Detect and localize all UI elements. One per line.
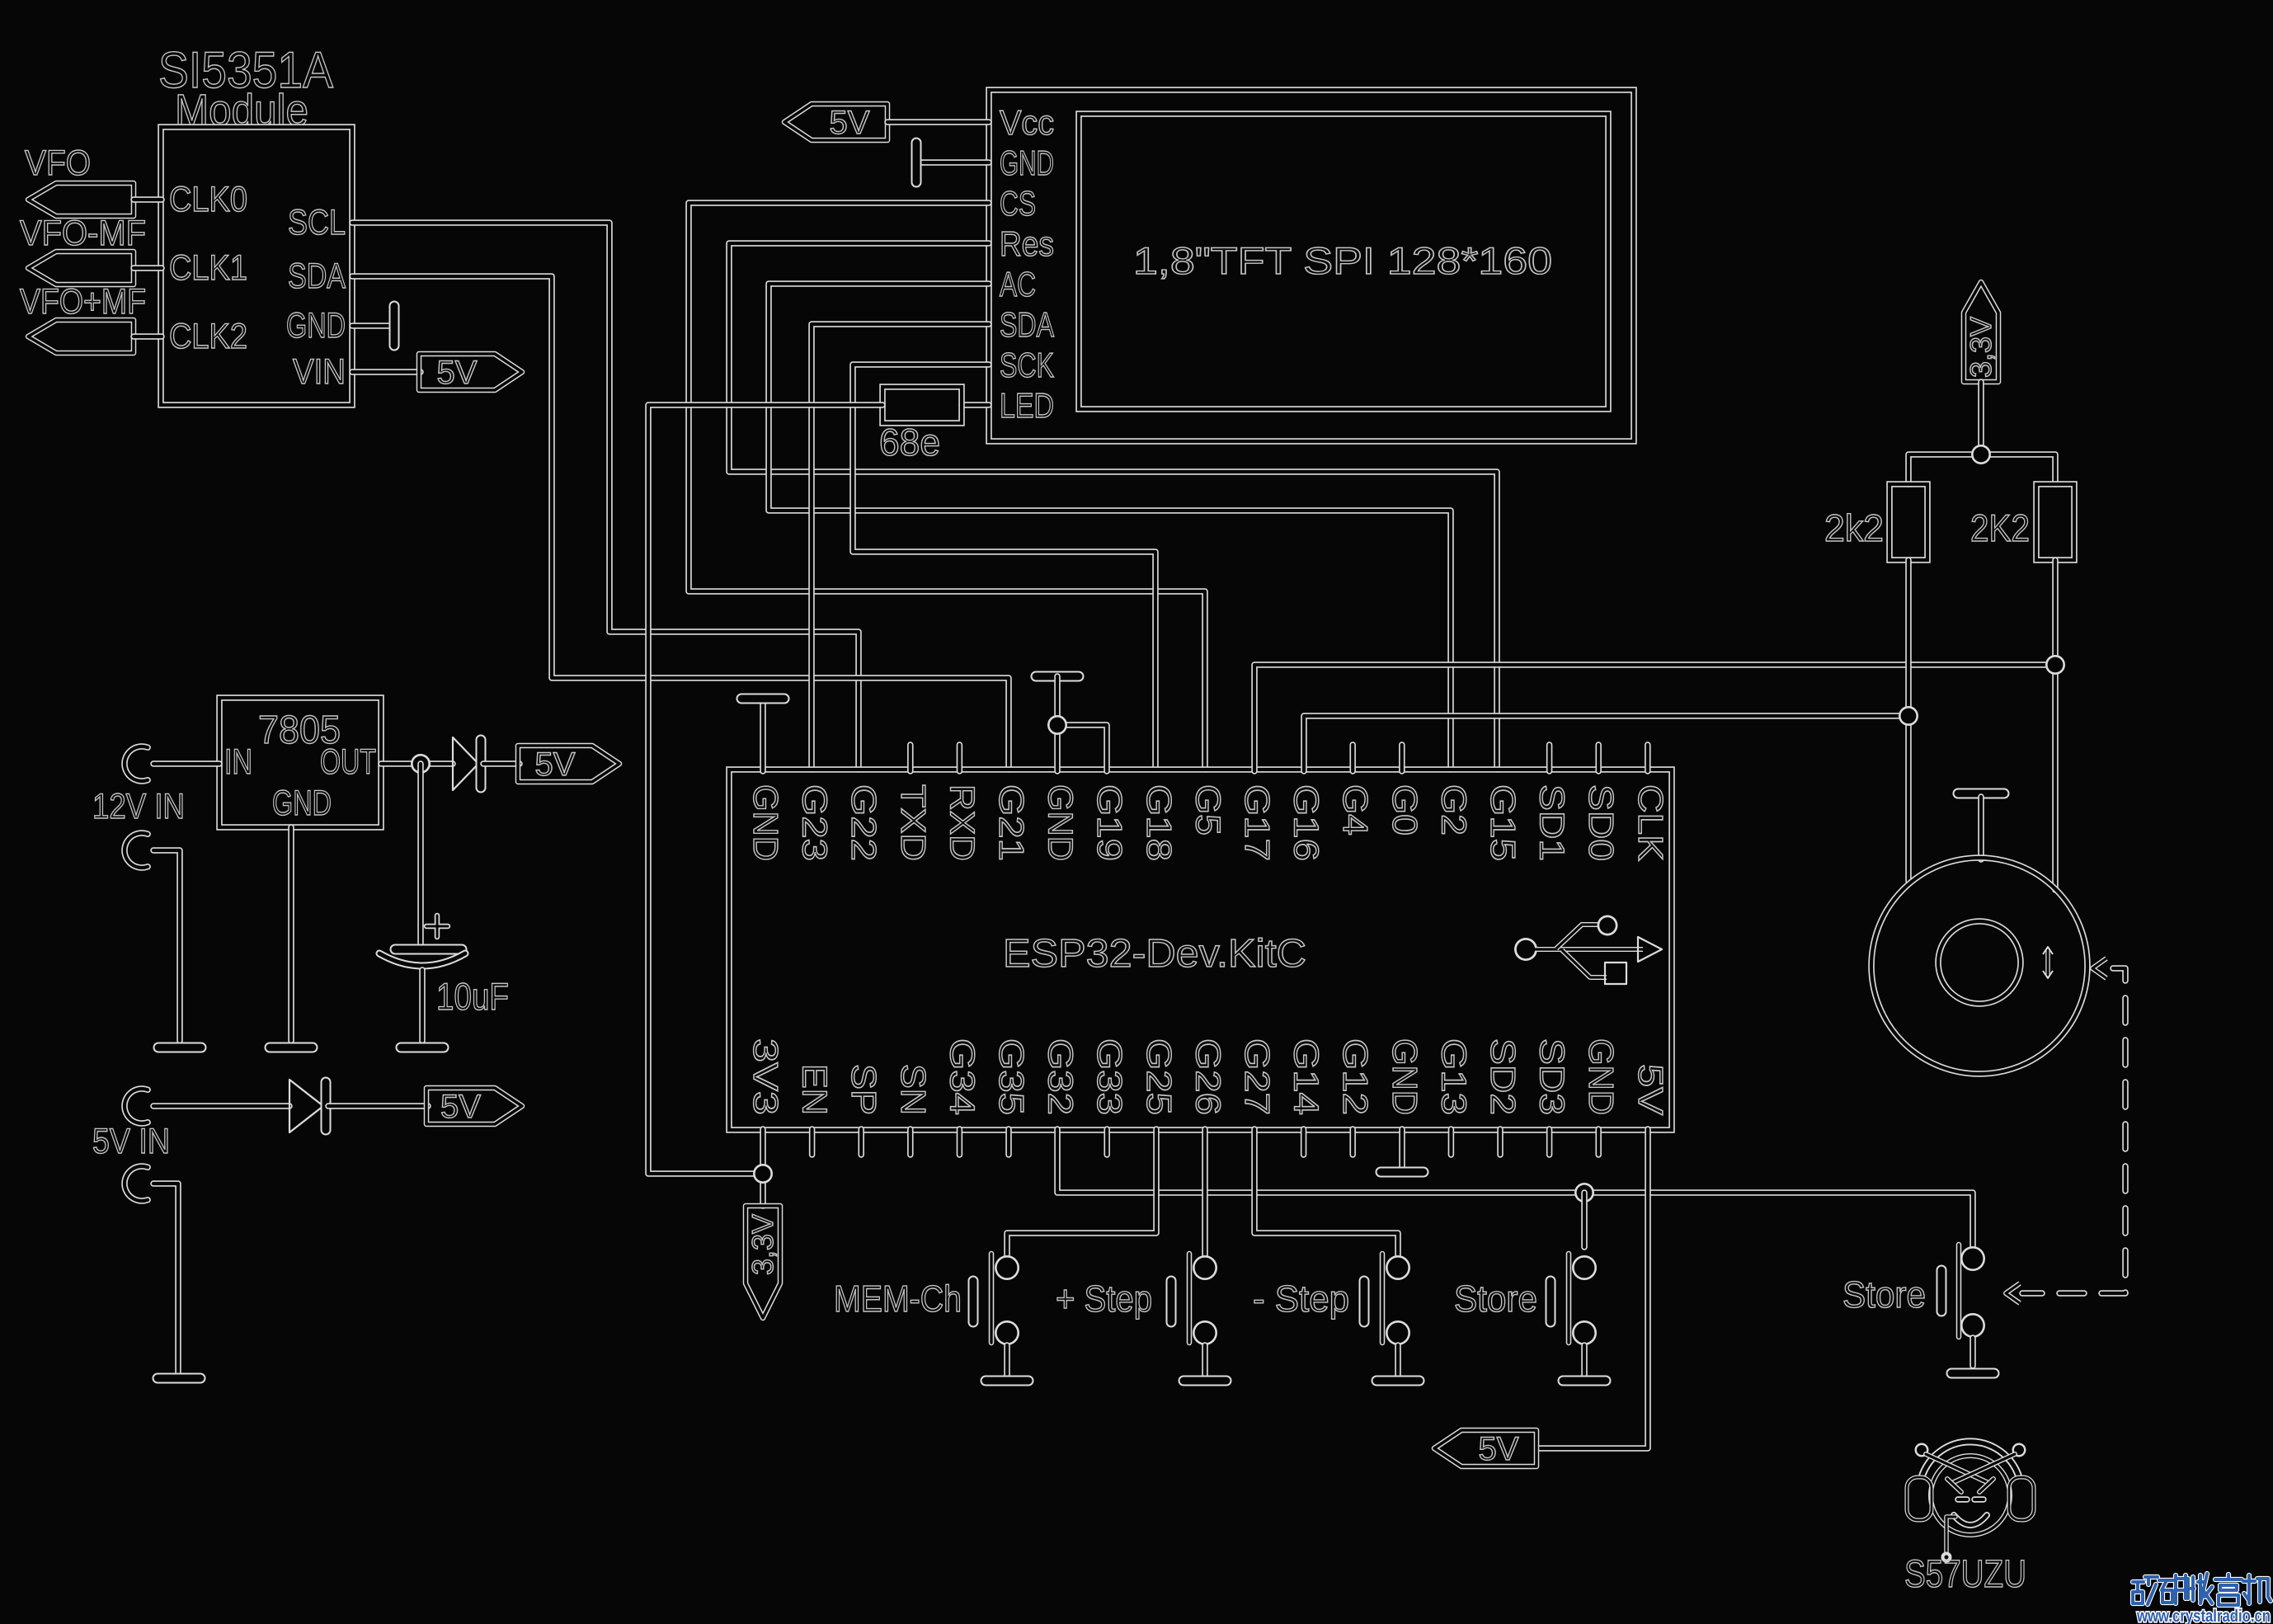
pin stub top RXD — [957, 745, 963, 771]
ground bar Store S5 — [1951, 1368, 1994, 1379]
button -Step S3 ground stem — [1395, 1345, 1401, 1376]
power flag 5V TFT — [784, 104, 887, 140]
logo eye right — [1974, 1496, 1984, 1503]
button Store S5 ground stem — [1969, 1338, 1976, 1366]
junction node encoder B — [2045, 655, 2065, 675]
module TFT screen inner box — [1079, 114, 1608, 409]
wire D2 to 5V flag — [328, 1103, 428, 1109]
svg-text:G0: G0 — [1386, 784, 1424, 836]
svg-text:G12: G12 — [1336, 1038, 1375, 1115]
button +Step S2 bottom contact — [1193, 1320, 1217, 1345]
pin label top TXD 3 — [894, 784, 933, 861]
svg-text:VFO+MF: VFO+MF — [20, 282, 146, 322]
label 12V IN — [92, 787, 185, 826]
pin label SCL — [288, 203, 346, 242]
pin stub bottom G12 — [1349, 1129, 1356, 1155]
logo S57UZU headband — [1922, 1442, 2018, 1475]
resistor R2 2k2 — [1889, 484, 1927, 560]
wire 12V IN — [153, 760, 219, 767]
svg-text:5V: 5V — [535, 746, 576, 783]
label - Step — [1253, 1278, 1349, 1320]
svg-text:VFO-MF: VFO-MF — [20, 214, 146, 253]
logo antenna right — [1954, 1454, 2015, 1482]
pin label bottom G12 12 — [1336, 1038, 1375, 1115]
ground bar U1 — [389, 306, 400, 346]
label 7805 — [258, 708, 341, 752]
pin stub top G4 — [1349, 745, 1356, 771]
ground bar 12V — [158, 1043, 201, 1053]
logo eye left — [1958, 1496, 1967, 1503]
connector 12V IN pin — [125, 746, 148, 781]
pin label TFT GND — [1000, 144, 1054, 182]
svg-text:SDA: SDA — [288, 257, 346, 296]
power flag 5V TFT text — [830, 105, 870, 141]
wire 12V GND — [153, 850, 180, 1041]
pin label top G4 12 — [1336, 784, 1375, 836]
pin label bottom SD3 16 — [1533, 1038, 1572, 1115]
wire G26 to +Step — [1202, 1129, 1208, 1255]
svg-text:GND: GND — [1386, 1038, 1424, 1115]
wire store button drop — [1581, 1193, 1588, 1247]
pin label top CLK 18 — [1631, 784, 1670, 861]
pin label top G21 5 — [992, 784, 1031, 861]
svg-text:G17: G17 — [1238, 784, 1277, 861]
svg-text:G18: G18 — [1140, 784, 1179, 861]
power flag 5V VIN text — [437, 355, 478, 391]
label Store S5 — [1842, 1273, 1926, 1316]
svg-text:1,8"TFT SPI 128*160: 1,8"TFT SPI 128*160 — [1133, 239, 1552, 282]
svg-text:ESP32-Dev.KitC: ESP32-Dev.KitC — [1003, 932, 1306, 976]
button -Step S3 plunger bar — [1380, 1254, 1386, 1343]
pin label bottom SP 2 — [845, 1064, 883, 1115]
label ESP32 title — [1003, 932, 1306, 976]
label + Step — [1056, 1278, 1152, 1320]
svg-text:TXD: TXD — [894, 784, 933, 861]
encoder S5 inner circle — [1938, 921, 2021, 1004]
ground bar -Step S3 — [1377, 1376, 1419, 1386]
svg-text:G35: G35 — [992, 1038, 1031, 1115]
ground bar ESP32 bottom — [1381, 1167, 1424, 1178]
svg-text:Res: Res — [1000, 224, 1054, 263]
svg-text:3V3: 3V3 — [746, 1038, 785, 1115]
pin stub bottom G14 — [1301, 1129, 1307, 1155]
watermark site name — [2133, 1574, 2271, 1605]
svg-text:3,3V: 3,3V — [1964, 317, 1998, 378]
pin stub top CLK — [1645, 745, 1651, 771]
svg-text:G25: G25 — [1140, 1038, 1179, 1115]
svg-text:+ Step: + Step — [1056, 1278, 1152, 1320]
junction node store bus — [1574, 1183, 1594, 1203]
svg-text:VFO: VFO — [25, 144, 91, 183]
pin label TFT Vcc — [1000, 103, 1054, 142]
resistor R1 68e — [882, 387, 962, 423]
ground bar 7805 — [270, 1043, 313, 1053]
wire D1 to 5V flag — [483, 760, 520, 767]
ground bar ESP32 top-left — [741, 694, 784, 704]
USB icon big circle — [1514, 938, 1537, 961]
USB icon lower branch — [1562, 950, 1607, 977]
net flag VFO-MF — [28, 252, 134, 285]
IC U2 7805 box — [219, 698, 381, 827]
pin label top G19 7 — [1090, 784, 1129, 861]
pin label bottom G33 7 — [1090, 1038, 1129, 1115]
pin stub bottom SN — [907, 1129, 914, 1155]
diode D2 cathode bar — [321, 1082, 332, 1130]
svg-text:G13: G13 — [1434, 1038, 1473, 1115]
wire resistor top bus — [1908, 454, 2055, 484]
pin stub bottom SP — [858, 1129, 864, 1155]
pin stub top SD1 — [1546, 745, 1553, 771]
svg-text:GND: GND — [286, 306, 346, 346]
dashed link arrow to button — [2006, 1283, 2020, 1303]
logo antenna right foot — [1947, 1479, 1961, 1492]
pin stub bottom SD3 — [1546, 1129, 1553, 1155]
power flag 5V in — [426, 1088, 522, 1124]
pin stub top G0 — [1399, 745, 1405, 771]
encoder shaft arrow tips — [2043, 947, 2053, 978]
dashed link arrow to encoder — [2092, 958, 2106, 978]
wire G27 to -Step — [1254, 1129, 1398, 1255]
logo S57UZU right ear pad — [2009, 1477, 2034, 1520]
button MEM-Ch S1 actuator — [968, 1281, 979, 1322]
IC U1 SI5351A module box — [161, 127, 352, 405]
pin label bottom G13 14 — [1434, 1038, 1473, 1115]
pin label GND 7805 — [272, 784, 332, 823]
pin label SDA — [288, 257, 346, 296]
wire GND to G19 — [1057, 725, 1107, 771]
power flag 5V in text — [440, 1089, 481, 1125]
svg-text:Vcc: Vcc — [1000, 103, 1054, 142]
svg-text:CLK: CLK — [1631, 784, 1670, 861]
USB icon square — [1605, 963, 1626, 984]
pin stub bottom SD2 — [1497, 1129, 1504, 1155]
module ESP32 box — [729, 770, 1672, 1130]
connector 12V GND pin — [125, 833, 148, 868]
svg-text:68e: 68e — [879, 421, 940, 464]
pin label top G2 14 — [1434, 784, 1473, 836]
svg-text:GND: GND — [272, 784, 332, 823]
svg-text:VIN: VIN — [293, 352, 346, 392]
svg-text:SP: SP — [845, 1064, 883, 1115]
svg-text:www.crystalradio.cn: www.crystalradio.cn — [2136, 1607, 2271, 1624]
ground bar TFT — [911, 143, 922, 182]
wire CLK1 stub — [134, 265, 162, 271]
wire GND pin7 riser — [1054, 725, 1061, 771]
USB icon arrowhead — [1638, 937, 1662, 962]
button Store S4 bottom contact — [1572, 1320, 1597, 1345]
power flag 5V bottom — [1434, 1430, 1537, 1466]
pin label top G23 1 — [796, 784, 835, 861]
capacitor C1 plus sign — [426, 916, 448, 937]
wire 5V pin to flag — [1538, 1129, 1648, 1448]
button +Step S2 actuator — [1166, 1281, 1177, 1322]
svg-text:G5: G5 — [1188, 784, 1227, 836]
pin label TFT AC — [1000, 265, 1036, 304]
wire CLK0 stub — [134, 196, 162, 203]
svg-text:CLK1: CLK1 — [169, 248, 247, 288]
button Store S4 plunger bar — [1566, 1254, 1572, 1343]
logo antenna left — [1926, 1454, 1987, 1482]
ground bar MEM-Ch S1 — [986, 1376, 1028, 1386]
button -Step S3 actuator — [1359, 1281, 1370, 1322]
pin label TFT SDA — [1000, 305, 1054, 344]
logo mic dot — [1941, 1552, 1952, 1563]
pin label OUT — [320, 742, 376, 782]
svg-text:SN: SN — [894, 1064, 933, 1115]
svg-text:G34: G34 — [943, 1038, 981, 1115]
wire TFT SCK to G18 — [853, 365, 1155, 770]
wire 5V IN — [153, 1103, 289, 1109]
button MEM-Ch S1 plunger bar — [989, 1254, 995, 1343]
ground bar 5V IN — [158, 1373, 200, 1384]
svg-text:S57UZU: S57UZU — [1904, 1551, 2026, 1595]
wire R3 to encoder B — [2052, 560, 2059, 890]
svg-text:GND: GND — [1042, 784, 1080, 861]
svg-text:G14: G14 — [1287, 1038, 1326, 1115]
ground bar +Step S2 — [1184, 1376, 1226, 1386]
pin label top G18 8 — [1140, 784, 1179, 861]
svg-text:SD0: SD0 — [1582, 784, 1621, 861]
pin label TFT SCK — [1000, 346, 1054, 384]
label SI5351A title — [158, 42, 334, 99]
pin label bottom G26 9 — [1188, 1038, 1227, 1115]
encoder shaft arrow — [2045, 950, 2050, 975]
svg-text:LED: LED — [1000, 386, 1054, 425]
pin label bottom 5V 18 — [1631, 1064, 1670, 1115]
button MEM-Ch S1 ground stem — [1004, 1345, 1010, 1376]
svg-text:GND: GND — [1582, 1038, 1621, 1115]
diode D2 triangle — [289, 1080, 323, 1132]
svg-text:5V: 5V — [437, 355, 478, 391]
pin label bottom G14 11 — [1287, 1038, 1326, 1115]
button Store S4 top contact — [1572, 1255, 1597, 1280]
button +Step S2 ground stem — [1202, 1345, 1208, 1376]
wire 3V3 down — [760, 1129, 766, 1206]
pin label bottom GND 17 — [1582, 1038, 1621, 1115]
pin label bottom G32 6 — [1042, 1038, 1080, 1115]
USB icon small circle — [1598, 916, 1618, 936]
pin label top SD1 16 — [1533, 784, 1572, 861]
button Store S5 bottom contact — [1960, 1313, 1985, 1338]
label 10uF — [436, 975, 509, 1018]
net label VFO-MF text — [20, 214, 146, 253]
svg-text:G22: G22 — [845, 784, 883, 861]
power flag 5V VIN — [419, 354, 522, 390]
resistor R3 2K2 — [2036, 484, 2074, 560]
logo mic boom — [1946, 1517, 1955, 1554]
wire top GND pin1 — [760, 704, 766, 771]
pin label top G22 2 — [845, 784, 883, 861]
svg-text:CS: CS — [1000, 184, 1036, 223]
pin label bottom G25 8 — [1140, 1038, 1179, 1115]
wire 7805 OUT — [381, 760, 453, 767]
power flag 3,3V top — [1964, 282, 1998, 382]
svg-text:G23: G23 — [796, 784, 835, 861]
svg-text:GND: GND — [746, 784, 785, 861]
wire 5V GND — [153, 1184, 178, 1373]
svg-text:G26: G26 — [1188, 1038, 1227, 1115]
svg-text:SD3: SD3 — [1533, 1038, 1572, 1115]
wire TFT AC to G2 — [769, 284, 1451, 770]
wire 7805 GND — [288, 827, 294, 1041]
label TFT title — [1133, 239, 1552, 282]
pin stub bottom G33 — [1104, 1129, 1110, 1155]
USB icon upper branch — [1556, 925, 1599, 949]
wire TFT SDA to G23 — [812, 324, 989, 770]
dashed link wire — [2022, 968, 2125, 1293]
svg-text:G4: G4 — [1336, 784, 1375, 836]
svg-text:EN: EN — [796, 1064, 835, 1115]
pin stub top TXD — [907, 745, 914, 771]
ground bar encoder — [1958, 788, 2004, 799]
pin label bottom GND 13 — [1386, 1038, 1424, 1115]
logo smile — [1954, 1515, 1987, 1525]
ground bar Store S4 — [1563, 1376, 1606, 1386]
svg-text:12V IN: 12V IN — [92, 787, 185, 826]
wire LED resistor to 3V3 node — [648, 405, 882, 1174]
pin label TFT CS — [1000, 184, 1036, 223]
wire TFT GND — [921, 159, 989, 166]
connector 5V IN pin — [125, 1089, 148, 1123]
pin stub bottom G34 — [957, 1129, 963, 1155]
wire VIN to 5V — [352, 369, 421, 375]
label 68e — [879, 421, 940, 464]
svg-text:Store: Store — [1842, 1273, 1926, 1316]
wire TFT Vcc — [887, 119, 989, 125]
svg-text:5V: 5V — [1479, 1431, 1519, 1467]
pin label bottom 3V3 0 — [746, 1038, 785, 1115]
pin label top G17 10 — [1238, 784, 1277, 861]
pin stub bottom GND — [1595, 1129, 1602, 1155]
encoder S5 outer circle — [1871, 858, 2087, 1074]
pin label top G15 15 — [1484, 784, 1522, 861]
watermark url — [2136, 1607, 2271, 1624]
button MEM-Ch S1 bottom contact — [995, 1320, 1019, 1345]
svg-text:G32: G32 — [1042, 1038, 1080, 1115]
svg-text:IN: IN — [224, 742, 252, 782]
button Store S4 actuator — [1546, 1281, 1556, 1322]
pin stub bottom G13 — [1448, 1129, 1455, 1155]
pin label CLK1 — [169, 248, 247, 288]
pin label top G5 9 — [1188, 784, 1227, 836]
svg-text:CLK0: CLK0 — [169, 180, 247, 219]
pin label GND U1 — [286, 306, 346, 346]
svg-text:G16: G16 — [1287, 784, 1326, 861]
connector 5V GND pin — [125, 1166, 148, 1201]
ground bar C1 — [401, 1043, 444, 1053]
label Module title — [175, 86, 308, 135]
svg-text:SCL: SCL — [288, 203, 346, 242]
label 2k2 — [1824, 506, 1884, 549]
label MEM-Ch — [834, 1278, 962, 1320]
button -Step S3 top contact — [1386, 1255, 1410, 1280]
power flag 3,3V bottom text — [746, 1214, 779, 1275]
pin label bottom G35 5 — [992, 1038, 1031, 1115]
logo S57UZU left ear pad — [1907, 1477, 1932, 1520]
svg-text:CLK2: CLK2 — [169, 317, 247, 356]
pin label top G16 11 — [1287, 784, 1326, 861]
pin label CLK2 — [169, 317, 247, 356]
svg-text:- Step: - Step — [1253, 1278, 1349, 1320]
pin label bottom EN 1 — [796, 1064, 835, 1115]
svg-text:OUT: OUT — [320, 742, 376, 782]
wire SDA to G21 — [352, 276, 1009, 770]
svg-text:3,3V: 3,3V — [746, 1214, 779, 1275]
pin label TFT Res — [1000, 224, 1054, 263]
svg-text:5V: 5V — [1631, 1064, 1670, 1115]
svg-text:2K2: 2K2 — [1970, 506, 2030, 549]
button Store S5 plunger bar — [1956, 1245, 1962, 1337]
svg-text:G2: G2 — [1434, 784, 1473, 836]
svg-text:G33: G33 — [1090, 1038, 1129, 1115]
wire 3,3V stem — [1978, 382, 1984, 454]
wire R2 to encoder A — [1905, 560, 1912, 881]
pin label top SD0 17 — [1582, 784, 1621, 861]
button MEM-Ch S1 top contact — [995, 1255, 1019, 1280]
pin label IN — [224, 742, 252, 782]
label Store S4 — [1454, 1278, 1537, 1320]
button +Step S2 plunger bar — [1187, 1254, 1193, 1343]
svg-text:G21: G21 — [992, 784, 1031, 861]
pin label bottom G27 10 — [1238, 1038, 1277, 1115]
pin stub bottom EN — [809, 1129, 816, 1155]
svg-text:GND: GND — [1000, 144, 1054, 182]
power flag 3,3V top text — [1964, 317, 1998, 378]
net label VFO+MF text — [20, 282, 146, 322]
pin label bottom SD2 15 — [1484, 1038, 1522, 1115]
pin stub top SD0 — [1595, 745, 1602, 771]
power flag 3,3V bottom — [746, 1206, 780, 1318]
USB icon shaft — [1535, 947, 1643, 952]
button Store S4 ground stem — [1581, 1345, 1588, 1376]
wire TFT CS to G5 — [689, 203, 1205, 770]
junction node 3V3 — [753, 1164, 773, 1184]
pin label TFT LED — [1000, 386, 1054, 425]
logo S57UZU face — [1931, 1456, 2010, 1535]
logo antenna left knob — [1915, 1443, 1929, 1457]
junction node encoder A — [1899, 706, 1918, 726]
svg-text:G27: G27 — [1238, 1038, 1277, 1115]
ground bar ESP32 top-mid — [1036, 671, 1079, 682]
wire G32 store bus — [1057, 1129, 1973, 1247]
power flag 5V out text — [535, 746, 576, 783]
net label VFO text — [25, 144, 91, 183]
diode D1 triangle — [453, 737, 478, 790]
wire U1 GND — [352, 322, 389, 329]
junction node 3,3V bus — [1971, 445, 1991, 464]
button Store S5 top contact — [1960, 1246, 1985, 1271]
label 5V IN — [92, 1122, 170, 1161]
wire cap to ground — [419, 970, 426, 1041]
power flag 5V bottom text — [1479, 1431, 1519, 1467]
button Store S5 actuator — [1937, 1270, 1947, 1311]
pin label top RXD 4 — [943, 784, 981, 861]
wire CLK2 stub — [134, 333, 162, 340]
logo antenna right knob — [2012, 1443, 2026, 1457]
wire TFT Res to G15 — [729, 243, 1497, 770]
svg-text:G15: G15 — [1484, 784, 1522, 861]
module TFT outer box — [989, 90, 1634, 441]
pin label top GND 6 — [1042, 784, 1080, 861]
pin label bottom SN 3 — [894, 1064, 933, 1115]
power flag 5V out — [518, 746, 619, 782]
button -Step S3 bottom contact — [1386, 1320, 1410, 1345]
svg-text:10uF: 10uF — [436, 975, 509, 1018]
pin label top GND 0 — [746, 784, 785, 861]
button +Step S2 top contact — [1193, 1255, 1217, 1280]
wire GND pin bottom — [1399, 1129, 1405, 1167]
capacitor C1 bottom plate — [379, 953, 465, 966]
